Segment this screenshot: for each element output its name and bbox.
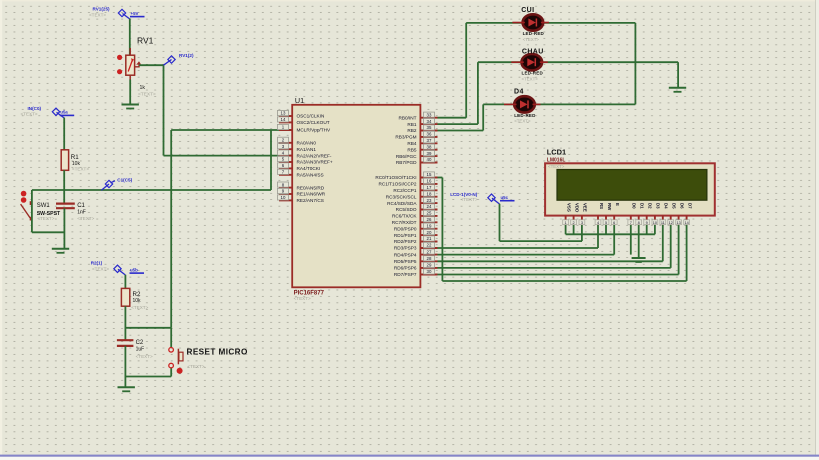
pin 18 RC3/SCK/SCL xyxy=(386,191,438,199)
wire pin 34 to LED CHAU xyxy=(438,123,478,125)
svg-text:LCD1: LCD1 xyxy=(547,148,566,157)
wire C2 bottom to ground xyxy=(124,346,126,387)
svg-text:17: 17 xyxy=(427,185,432,190)
svg-text:D2: D2 xyxy=(648,203,653,209)
svg-text:LED-RED: LED-RED xyxy=(514,113,536,118)
push button RESET MICRO xyxy=(169,348,183,374)
svg-text:RE2/AN7/CS: RE2/AN7/CS xyxy=(297,198,324,203)
LCD pin 14 D7 xyxy=(684,203,693,225)
wire RV1 bottom to ground xyxy=(129,80,131,105)
svg-text:RD4/PSP4: RD4/PSP4 xyxy=(394,252,417,257)
wire E to pin 27 xyxy=(613,225,615,255)
terminal T6 LCD contrast xyxy=(488,194,500,204)
svg-text:RA2/AN2/VREF-: RA2/AN2/VREF- xyxy=(297,153,332,158)
wire contrast terminal down xyxy=(499,204,501,241)
svg-text:D4: D4 xyxy=(664,203,669,209)
LCD pin 2 VDD xyxy=(571,203,580,225)
wire label near T5 xyxy=(130,267,145,274)
svg-text:<TEXT>: <TEXT> xyxy=(136,354,153,359)
svg-text:1nF: 1nF xyxy=(77,209,86,215)
svg-text:4: 4 xyxy=(597,221,599,225)
wire VSS-D3 horizontal xyxy=(566,233,655,235)
svg-text:RB6/PGC: RB6/PGC xyxy=(396,154,417,159)
svg-text:<TEXT>: <TEXT> xyxy=(37,216,54,221)
svg-text:<TEXT>: <TEXT> xyxy=(523,37,540,42)
wire RV1 wiper drop down xyxy=(163,65,165,155)
LCD pin 7 D0 xyxy=(628,203,637,225)
svg-text:33: 33 xyxy=(427,112,432,117)
svg-text:9: 9 xyxy=(646,221,648,225)
ground below C1 xyxy=(52,249,69,253)
svg-text:11: 11 xyxy=(661,221,665,225)
svg-text:20: 20 xyxy=(427,230,432,235)
wire RV1 wiper run right xyxy=(139,64,164,66)
wire LED CUI cathode to bus xyxy=(544,22,636,24)
svg-text:1k: 1k xyxy=(140,85,146,91)
wire junction horizontal to R2/C2 column xyxy=(125,327,171,329)
capacitor C2 xyxy=(117,340,133,346)
potentiometer RV1 xyxy=(117,48,141,80)
pin 21 RD2/PSP2 xyxy=(394,236,438,244)
pin 36 RB3/PGM xyxy=(395,131,437,139)
wire pin 33 to LED CUI xyxy=(438,117,467,119)
svg-text:10k: 10k xyxy=(133,298,142,304)
pin 2 RA0/AN0 xyxy=(278,137,317,145)
svg-text:14: 14 xyxy=(281,117,286,122)
LCD pin 10 D3 xyxy=(652,203,661,225)
LCD pin 12 D5 xyxy=(668,203,677,225)
svg-text:RC5/SDO: RC5/SDO xyxy=(396,207,417,212)
input terminal T4 above R1 xyxy=(52,108,64,118)
LCD pin 1 VSS xyxy=(563,203,572,225)
svg-text:25: 25 xyxy=(427,211,432,216)
svg-text:22: 22 xyxy=(427,243,432,248)
pin 24 RC5/SDO xyxy=(396,204,438,212)
svg-text:E: E xyxy=(615,203,620,206)
wire SW1 bottom horizontal xyxy=(32,231,65,233)
svg-text:RB2: RB2 xyxy=(407,128,417,133)
pin 26 RC7/RX/DT xyxy=(392,217,438,225)
LCD pin 3 VEE xyxy=(579,203,588,225)
LCD pin 9 D2 xyxy=(644,203,653,225)
svg-text:C1: C1 xyxy=(77,203,85,209)
svg-text:<TEXT>: <TEXT> xyxy=(131,305,148,310)
svg-text:R1: R1 xyxy=(71,154,79,161)
window edge bottom blue line xyxy=(0,455,819,460)
wire D0 drop xyxy=(630,225,632,255)
pin 19 RD0/PSP0 xyxy=(394,223,438,231)
svg-text:<TEXT>: <TEXT> xyxy=(294,296,311,301)
pin 9 RE1/AN6/WR xyxy=(278,188,326,196)
svg-text:37: 37 xyxy=(427,138,432,143)
window edge left xyxy=(0,0,2,460)
svg-text:RA1/AN1: RA1/AN1 xyxy=(297,147,317,152)
LCD pin 6 E xyxy=(611,203,620,225)
capacitor C1 xyxy=(56,204,75,209)
svg-text:VEE: VEE xyxy=(583,203,588,212)
svg-text:RD6/PSP6: RD6/PSP6 xyxy=(394,266,417,271)
svg-text:VDD: VDD xyxy=(574,203,579,212)
wire contrast horizontal to VEE xyxy=(500,240,583,242)
window edge right xyxy=(816,0,819,460)
wire button bottom to C2 ground column xyxy=(125,376,171,378)
svg-text:D4: D4 xyxy=(514,89,524,96)
svg-text:12: 12 xyxy=(669,221,673,225)
wire LCD D4 to pin 28 xyxy=(662,225,664,261)
pin 17 RC2/CCP1 xyxy=(393,185,437,193)
switch SW1 xyxy=(21,191,31,221)
terminal T2 on wiper xyxy=(164,56,176,65)
svg-text:26: 26 xyxy=(427,217,432,222)
svg-text:16: 16 xyxy=(427,179,432,184)
svg-text:RD5/PSP5: RD5/PSP5 xyxy=(394,259,417,264)
svg-text:RC7/RX/DT: RC7/RX/DT xyxy=(392,220,417,225)
power terminal T1 (RV1 top) xyxy=(118,9,129,19)
svg-text:C1(C5): C1(C5) xyxy=(117,178,132,183)
wire D3 drop xyxy=(654,225,656,234)
svg-text:LM016L: LM016L xyxy=(547,158,566,164)
svg-text:10: 10 xyxy=(281,195,286,200)
svg-text:RESET MICRO: RESET MICRO xyxy=(187,348,248,357)
pin 39 RB6/PGC xyxy=(396,151,438,159)
pin 8 RE0/AN5/RD xyxy=(278,182,325,190)
wire LCD D6 to pin 30 xyxy=(678,225,680,275)
pin 13 OSC1/CLKIN xyxy=(278,110,325,118)
wire label near T6 xyxy=(500,195,515,202)
wire vertical node 271 between MCLR wire and SW1 wire xyxy=(270,130,272,190)
svg-text:SW1: SW1 xyxy=(37,203,51,209)
pin 25 RC6/TX/CK xyxy=(392,210,437,218)
svg-text:RB0/INT: RB0/INT xyxy=(399,115,417,120)
pin 3 RA1/AN1 xyxy=(278,144,317,152)
wire R1 bottom to C1 top xyxy=(63,170,65,203)
svg-text:RE0/AN5/RD: RE0/AN5/RD xyxy=(297,185,325,190)
svg-text:5: 5 xyxy=(605,221,607,225)
pin 20 RD1/PSP1 xyxy=(394,230,438,238)
svg-text:D5: D5 xyxy=(672,203,677,209)
pin 15 RC0/T1OSO/T1CKI xyxy=(375,172,437,180)
LCD pin 5 RW xyxy=(603,203,612,225)
wire RW drop xyxy=(605,225,607,234)
svg-text:21: 21 xyxy=(427,236,432,241)
svg-text:RC4/SDI/SDA: RC4/SDI/SDA xyxy=(387,201,417,206)
svg-text:RA0/AN0: RA0/AN0 xyxy=(297,141,317,146)
svg-text:u5c: u5c xyxy=(501,195,509,200)
svg-text:34: 34 xyxy=(427,119,432,124)
pin 29 RD6/PSP6 xyxy=(394,262,438,270)
svg-text:28: 28 xyxy=(427,256,432,261)
svg-text:30: 30 xyxy=(427,269,432,274)
svg-text:OSC1/CLKIN: OSC1/CLKIN xyxy=(297,114,325,119)
svg-text:<TEXT>: <TEXT> xyxy=(89,13,106,18)
svg-text:<TEXT>: <TEXT> xyxy=(92,267,109,272)
wire VEE drop xyxy=(581,225,583,241)
wire button column upper xyxy=(170,328,172,348)
pin 4 RA2/AN2/VREF- xyxy=(278,150,332,158)
pin 38 RB5 xyxy=(407,144,437,152)
wire LED D4 cathode to bus xyxy=(535,103,635,105)
svg-text:<TEXT>: <TEXT> xyxy=(72,166,89,171)
wire LED ground drop xyxy=(677,62,679,87)
svg-text:D0: D0 xyxy=(632,203,637,209)
ground below LCD D1 xyxy=(632,258,646,262)
svg-text:23: 23 xyxy=(427,198,432,203)
pin 33 RB0/INT xyxy=(399,112,438,120)
wire SW1 left vertical xyxy=(31,190,33,232)
wire RV1 top xyxy=(129,19,131,56)
svg-text:<TEXT>: <TEXT> xyxy=(522,77,539,82)
svg-text:24: 24 xyxy=(427,204,432,209)
svg-text:<TEXT>: <TEXT> xyxy=(21,112,38,117)
pin 14 OSC2/CLKOUT xyxy=(278,117,330,125)
svg-text:RB3/PGM: RB3/PGM xyxy=(395,135,416,140)
svg-text:36: 36 xyxy=(427,132,432,137)
pin 35 RB2 xyxy=(407,125,437,133)
terminal T3 on reset wire xyxy=(101,180,115,190)
pin 7 RA5/AN4/SS xyxy=(278,169,324,177)
wire R2 bottom to C2 xyxy=(124,306,126,340)
pin 23 RC4/SDI/SDA xyxy=(387,198,437,206)
LCD display LCD1 LM016L body xyxy=(545,163,715,215)
wire VDD drop xyxy=(573,225,575,234)
svg-text:38: 38 xyxy=(427,144,432,149)
wire D1 to ground xyxy=(638,225,640,257)
wire T4 to R1 xyxy=(63,118,65,150)
LCD pin 11 D4 xyxy=(660,203,669,225)
svg-text:RC0/T1OSO/T1CKI: RC0/T1OSO/T1CKI xyxy=(375,175,416,180)
svg-text:D6: D6 xyxy=(679,203,684,209)
wire LED cathode bus vertical xyxy=(634,23,636,105)
svg-text:D1: D1 xyxy=(640,203,645,209)
wire C1 bottom to ground xyxy=(63,208,65,248)
svg-text:<TEXT>: <TEXT> xyxy=(548,164,565,169)
pin 27 RD4/PSP4 xyxy=(394,249,438,257)
svg-text:RC2/CCP1: RC2/CCP1 xyxy=(393,188,417,193)
svg-text:RC6/TX/CK: RC6/TX/CK xyxy=(392,214,417,219)
LED D4 xyxy=(504,96,541,112)
wire SW1 top horizontal to node under MCLR xyxy=(32,189,271,191)
svg-text:<TEXT>: <TEXT> xyxy=(77,216,94,221)
svg-text:RV1: RV1 xyxy=(137,36,154,46)
LED CHAU xyxy=(511,54,548,70)
svg-text:RS: RS xyxy=(599,203,604,209)
svg-text:D7: D7 xyxy=(687,203,692,209)
pin 40 RB7/PGD xyxy=(396,157,438,165)
wire D2 drop xyxy=(646,225,648,234)
svg-text:<TEXT>: <TEXT> xyxy=(514,119,531,124)
svg-text:6: 6 xyxy=(613,221,615,225)
window edge top xyxy=(0,0,819,1)
svg-text:29: 29 xyxy=(427,263,432,268)
svg-text:40: 40 xyxy=(427,157,432,162)
svg-text:C2: C2 xyxy=(136,340,144,346)
svg-text:19: 19 xyxy=(427,223,432,228)
svg-text:RB1: RB1 xyxy=(407,122,417,127)
pin 22 RD3/PSP3 xyxy=(394,242,438,250)
wire RS to pin 22 xyxy=(597,225,599,248)
power terminal T5 above R2 xyxy=(114,265,126,275)
svg-text:15: 15 xyxy=(427,172,432,177)
svg-text:RA3/AN3/VREF+: RA3/AN3/VREF+ xyxy=(297,160,333,165)
svg-text:RD2/PSP2: RD2/PSP2 xyxy=(394,239,417,244)
svg-text:RD7/PSP7: RD7/PSP7 xyxy=(394,272,417,277)
svg-text:RB5: RB5 xyxy=(407,147,417,152)
wire LCD D5 to pin 29 xyxy=(670,225,672,268)
svg-text:+5V: +5V xyxy=(131,11,139,16)
resistor R1 xyxy=(61,150,68,171)
wire MCLR horizontal into pin 1 xyxy=(171,129,294,131)
LED CUI xyxy=(512,14,549,30)
svg-text:RW: RW xyxy=(607,203,612,211)
pin 30 RD7/PSP7 xyxy=(394,269,438,277)
LCD screen xyxy=(557,170,707,201)
wire T5 to R2 xyxy=(124,275,126,289)
wire label near T1 xyxy=(130,11,145,18)
pin 5 RA3/AN3/VREF+ xyxy=(278,156,333,164)
pin 1 MCLR/Vpp/THV xyxy=(278,124,331,132)
svg-text:RV1(2): RV1(2) xyxy=(179,53,194,58)
svg-text:RD3/PSP3: RD3/PSP3 xyxy=(394,246,417,251)
svg-text:RC1/T1OSI/CCP2: RC1/T1OSI/CCP2 xyxy=(378,182,416,187)
wire LED CHAU cathode to ground branch xyxy=(543,61,679,63)
svg-text:35: 35 xyxy=(427,125,432,130)
svg-text:RD0/PSP0: RD0/PSP0 xyxy=(394,226,417,231)
ground for LEDs xyxy=(669,88,686,92)
wire long vertical dropper x=171 from MCLR wire to R2-C2 junction xyxy=(170,130,172,328)
pin 10 RE2/AN7/CS xyxy=(278,195,324,203)
svg-text:LED-RED: LED-RED xyxy=(523,31,545,36)
svg-text:LED-RED: LED-RED xyxy=(522,71,544,76)
svg-text:27: 27 xyxy=(427,249,432,254)
microcontroller U1 PIC16F877 body xyxy=(292,105,420,287)
wire pin 35 to LED D4 xyxy=(438,130,484,132)
svg-text:R2(1): R2(1) xyxy=(91,261,103,266)
svg-text:D3: D3 xyxy=(656,203,661,209)
svg-text:13: 13 xyxy=(281,111,286,116)
svg-text:MCLR/Vpp/THV: MCLR/Vpp/THV xyxy=(297,128,331,133)
svg-text:7: 7 xyxy=(630,221,632,225)
svg-text:14: 14 xyxy=(684,221,688,225)
svg-text:RD1/PSP1: RD1/PSP1 xyxy=(394,233,417,238)
svg-text:2: 2 xyxy=(573,221,575,225)
svg-text:RE1/AN6/WR: RE1/AN6/WR xyxy=(297,192,326,197)
pin 34 RB1 xyxy=(407,119,437,127)
wire analog input into RA2 pin 4 xyxy=(164,155,295,157)
svg-text:1: 1 xyxy=(565,221,567,225)
wire label near T4 xyxy=(60,110,74,117)
svg-text:OSC2/CLKOUT: OSC2/CLKOUT xyxy=(297,120,330,125)
svg-text:u5b: u5b xyxy=(130,267,138,272)
ground below C2 xyxy=(118,387,135,391)
svg-text:<TEXT>: <TEXT> xyxy=(187,364,204,369)
wire button column lower xyxy=(170,368,172,377)
svg-text:RB4: RB4 xyxy=(407,141,417,146)
svg-text:VSS: VSS xyxy=(566,203,571,212)
svg-text:1uF: 1uF xyxy=(136,347,145,353)
pin 37 RB4 xyxy=(407,138,437,146)
svg-text:RV1(25): RV1(25) xyxy=(93,7,110,12)
resistor R2 xyxy=(121,288,129,306)
svg-text:U1: U1 xyxy=(295,96,304,105)
pin 16 RC1/T1OSI/CCP2 xyxy=(378,178,437,186)
wire LCD D7 to pin 15 xyxy=(686,225,688,281)
LCD pin 13 D6 xyxy=(676,203,685,225)
svg-text:39: 39 xyxy=(427,151,432,156)
svg-text:IN(C0): IN(C0) xyxy=(28,106,42,111)
svg-text:18: 18 xyxy=(427,191,432,196)
svg-text:RA5/AN4/SS: RA5/AN4/SS xyxy=(297,173,324,178)
ground below RV1 xyxy=(122,105,139,109)
wire VSS drop xyxy=(565,225,567,234)
svg-text:RB7/PGD: RB7/PGD xyxy=(396,160,417,165)
svg-text:<TEXT>: <TEXT> xyxy=(461,197,478,202)
svg-text:8: 8 xyxy=(638,221,640,225)
svg-text:CHAU: CHAU xyxy=(522,49,544,56)
pin 6 RA4/T0CKI xyxy=(278,163,321,171)
LCD pin 8 D1 xyxy=(636,203,645,225)
svg-text:10: 10 xyxy=(653,221,657,225)
svg-text:<TEXT>: <TEXT> xyxy=(138,92,156,98)
svg-text:RC3/SCK/SCL: RC3/SCK/SCL xyxy=(386,194,417,199)
svg-text:13: 13 xyxy=(676,221,680,225)
pin 28 RD5/PSP5 xyxy=(394,256,438,264)
LCD pin 4 RS xyxy=(595,203,604,225)
svg-text:RA4/T0CKI: RA4/T0CKI xyxy=(297,166,321,171)
svg-text:CUI: CUI xyxy=(521,7,534,14)
svg-text:u5a: u5a xyxy=(60,110,68,115)
svg-text:3: 3 xyxy=(581,221,583,225)
